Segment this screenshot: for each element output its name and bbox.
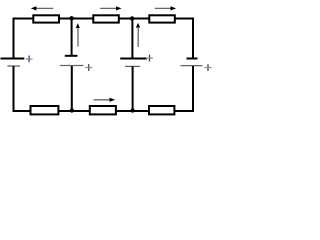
current arrow I1 (left) above R1 bbox=[31, 6, 54, 10]
current arrow I3 (right) above R3 bbox=[155, 6, 176, 10]
resistor R6 bbox=[149, 106, 174, 114]
node top junction A bbox=[69, 16, 73, 20]
resistor R2 bbox=[93, 15, 119, 22]
wire top rail segment 4 bbox=[175, 18, 194, 20]
wire branch 3 lower bbox=[132, 66, 134, 112]
current arrow I2 (right) above R2 bbox=[100, 6, 122, 10]
battery B4 long plate (+) bottom bbox=[181, 65, 203, 67]
wire bottom rail segment 1 bbox=[13, 110, 31, 112]
battery B3 short plate (-) bottom bbox=[125, 65, 140, 67]
wire bottom rail segment 2 bbox=[59, 110, 90, 112]
node bottom junction C bbox=[70, 108, 74, 112]
wire left branch lower bbox=[13, 66, 15, 112]
battery B2 long plate (+) bottom bbox=[60, 65, 83, 67]
battery B2 short plate (-) top bbox=[65, 55, 78, 57]
wire branch 2 upper bbox=[71, 19, 73, 55]
resistor R5 bbox=[90, 106, 116, 114]
wire top rail segment 3 bbox=[119, 18, 149, 20]
resistor R4 bbox=[31, 106, 59, 114]
wire bottom rail segment 3 bbox=[116, 110, 149, 112]
current arrow I6 (right) above R5 bbox=[94, 98, 116, 102]
wire right branch upper bbox=[192, 18, 194, 59]
battery B4 plus sign bbox=[205, 64, 212, 71]
wire branch 3 upper bbox=[131, 19, 133, 59]
resistor R3 bbox=[149, 15, 175, 22]
battery B3 plus sign bbox=[146, 55, 153, 62]
resistor R1 bbox=[33, 15, 59, 22]
battery B2 plus sign bbox=[85, 64, 92, 71]
current arrow I5 (up) beside branch 3 bbox=[136, 23, 140, 47]
battery B1 plus sign bbox=[26, 56, 33, 63]
battery B3 long plate (+) top bbox=[120, 58, 147, 60]
wire left branch upper bbox=[13, 18, 15, 59]
battery B1 long plate (+) bbox=[1, 58, 25, 60]
node bottom junction D bbox=[130, 108, 134, 112]
wire right branch lower bbox=[192, 66, 194, 112]
battery B1 short plate (-) bbox=[7, 65, 20, 67]
node top junction B bbox=[130, 16, 134, 20]
current arrow I4 (up) beside branch 2 bbox=[76, 23, 80, 46]
wire bottom rail segment 4 bbox=[175, 110, 194, 112]
wire branch 2 lower bbox=[71, 66, 73, 112]
battery B4 short plate (-) top bbox=[187, 58, 198, 60]
wire top rail segment 1 bbox=[13, 18, 34, 20]
wire top rail segment 2 bbox=[60, 18, 94, 20]
